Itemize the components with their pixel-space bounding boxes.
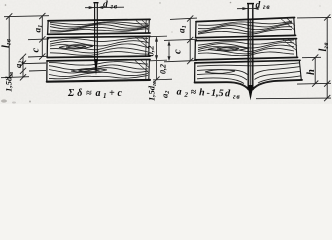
grain of board RB1 xyxy=(198,18,295,34)
svg-text:c: c xyxy=(31,48,42,53)
svg-text:0,2: 0,2 xyxy=(146,45,156,57)
grain of board B1 xyxy=(50,20,149,32)
right-figure left chain: a1 and c xyxy=(164,15,197,64)
board B3 (bottom board, left figure) xyxy=(47,60,150,82)
grain eye B3 xyxy=(71,68,107,72)
grain eye RB2 xyxy=(208,47,248,51)
svg-text:c: c xyxy=(173,49,184,54)
grain of board B3 xyxy=(49,60,150,79)
svg-text:h: h xyxy=(306,69,317,75)
board B2 (middle board, left figure) xyxy=(47,36,150,57)
d_gv dimension (left figure top) xyxy=(85,6,124,9)
board B1 (top board, left figure) xyxy=(48,19,150,34)
d_gv dimension (right figure top) xyxy=(237,7,258,9)
svg-text:0,2: 0,2 xyxy=(159,64,168,74)
paper background xyxy=(0,0,332,104)
lower-left chain: a2 and 1,5d_gv xyxy=(20,54,46,81)
grain eye RB3 xyxy=(205,70,235,74)
grain of board RB3 xyxy=(197,63,301,87)
board RB2 (middle board, right figure) xyxy=(195,39,298,60)
outer left dimension l_gv xyxy=(1,13,49,80)
board RB1 (top board, right figure) xyxy=(196,18,296,38)
gap dimension 0,2 (right figure) xyxy=(168,43,170,58)
nail (left figure) xyxy=(93,3,98,76)
gap dimension 0,2 (left figure, right side) xyxy=(150,36,167,61)
lower-right small marks of left figure xyxy=(153,61,172,83)
svg-text:d гв: d гв xyxy=(256,0,271,11)
board RB3 (bottom board, right figure; fibres bent at nail) xyxy=(195,60,302,89)
right-side dimensions: h and l_gv xyxy=(256,14,331,101)
svg-text:d гв: d гв xyxy=(103,0,118,11)
grain eye B2 xyxy=(59,45,93,49)
paper grain noise xyxy=(0,0,332,104)
inner left chain: a1 and c xyxy=(28,13,49,60)
nail (right figure, thicker, pierces through) xyxy=(247,4,254,101)
paper specks xyxy=(1,2,321,104)
grain of board B2 xyxy=(50,37,150,56)
grain of board RB2 xyxy=(198,39,297,55)
